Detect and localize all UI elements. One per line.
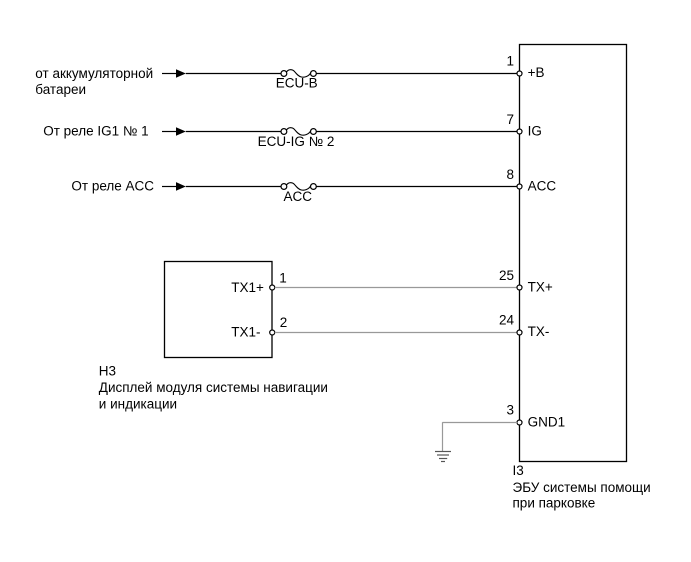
node: source label "от аккумуляторной батареи" bbox=[35, 66, 153, 97]
svg-text:и индикации: и индикации bbox=[99, 396, 177, 411]
component H3 display module box bbox=[165, 262, 273, 358]
wire: row 1 from fuse to pin 1 bbox=[316, 73, 517, 75]
svg-text:От реле IG1 № 1: От реле IG1 № 1 bbox=[43, 124, 148, 139]
svg-text:I3: I3 bbox=[513, 463, 524, 478]
component I3 ECU box bbox=[520, 45, 627, 462]
svg-text:H3: H3 bbox=[99, 363, 116, 378]
svg-text:ACC: ACC bbox=[528, 179, 557, 194]
svg-text:+B: +B bbox=[528, 65, 545, 80]
wire: row 2 from fuse to pin 7 bbox=[316, 131, 517, 133]
svg-text:25: 25 bbox=[499, 268, 514, 283]
node: I3 labels bbox=[513, 463, 651, 510]
wire: TX1- to TX- (gray) bbox=[275, 332, 518, 334]
pin 1 +B bbox=[506, 54, 544, 81]
fuse ECU-B bbox=[276, 70, 318, 91]
svg-text:3: 3 bbox=[506, 403, 514, 418]
svg-text:7: 7 bbox=[506, 112, 514, 127]
wire: row 2 from arrow to fuse ECU-IG bbox=[186, 131, 281, 133]
fuse ACC bbox=[281, 183, 316, 204]
svg-text:От реле ACC: От реле ACC bbox=[71, 178, 154, 193]
svg-text:от аккумуляторной: от аккумуляторной bbox=[35, 66, 153, 81]
svg-text:8: 8 bbox=[506, 167, 514, 182]
wire: row 1 from arrow to fuse ECU-B bbox=[186, 73, 281, 75]
pin 7 IG bbox=[506, 112, 541, 139]
svg-text:ЭБУ системы помощи: ЭБУ системы помощи bbox=[513, 480, 651, 495]
svg-text:TX1+: TX1+ bbox=[231, 280, 264, 295]
svg-text:TX1-: TX1- bbox=[231, 324, 260, 339]
svg-text:2: 2 bbox=[280, 315, 288, 330]
wire: TX1+ to TX+ (gray) bbox=[275, 287, 518, 289]
svg-text:TX-: TX- bbox=[528, 324, 550, 339]
pin 3 GND1 bbox=[506, 403, 565, 430]
wire: GND1 to ground (gray) bbox=[443, 422, 518, 451]
fuse ECU-IG № 2 bbox=[258, 128, 335, 149]
svg-text:1: 1 bbox=[279, 270, 287, 285]
svg-text:IG: IG bbox=[528, 124, 542, 139]
svg-text:TX+: TX+ bbox=[528, 280, 553, 295]
node: H3 labels bbox=[99, 363, 328, 411]
svg-text:при парковке: при парковке bbox=[513, 496, 596, 511]
pin TX1+ (H3 pin 1) bbox=[231, 270, 287, 294]
svg-text:ECU-IG № 2: ECU-IG № 2 bbox=[258, 134, 335, 149]
wire: row 3 from fuse to pin 8 bbox=[316, 186, 517, 188]
svg-text:Дисплей модуля системы навигац: Дисплей модуля системы навигации bbox=[99, 380, 328, 395]
svg-text:1: 1 bbox=[506, 54, 514, 69]
ground bbox=[435, 452, 451, 462]
pin TX1- (H3 pin 2) bbox=[231, 315, 287, 339]
svg-text:24: 24 bbox=[499, 313, 515, 328]
pin 25 TX+ bbox=[499, 268, 553, 295]
wire: row 3 from arrow to fuse ACC bbox=[186, 186, 281, 188]
wire: arrow feed row 3 bbox=[162, 182, 186, 191]
svg-text:ACC: ACC bbox=[284, 189, 313, 204]
pin 24 TX- bbox=[499, 313, 549, 340]
pin 8 ACC bbox=[506, 167, 556, 194]
wire: arrow feed row 2 bbox=[162, 127, 186, 136]
svg-text:батареи: батареи bbox=[35, 82, 86, 97]
wire: arrow feed row 1 bbox=[162, 69, 186, 78]
svg-text:GND1: GND1 bbox=[528, 414, 566, 429]
svg-text:ECU-B: ECU-B bbox=[276, 76, 318, 91]
